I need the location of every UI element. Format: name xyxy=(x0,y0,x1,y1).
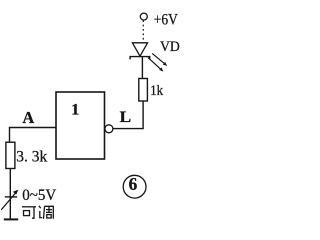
svg-text:3. 3k: 3. 3k xyxy=(16,148,47,165)
svg-text:1: 1 xyxy=(71,102,79,119)
svg-text:1k: 1k xyxy=(150,83,163,99)
svg-text:0~5V: 0~5V xyxy=(22,187,56,204)
svg-text:VD: VD xyxy=(160,39,180,55)
svg-text:6: 6 xyxy=(129,174,138,194)
svg-text:A: A xyxy=(22,108,34,127)
svg-text:+6V: +6V xyxy=(154,12,179,29)
svg-text:L: L xyxy=(120,109,132,126)
